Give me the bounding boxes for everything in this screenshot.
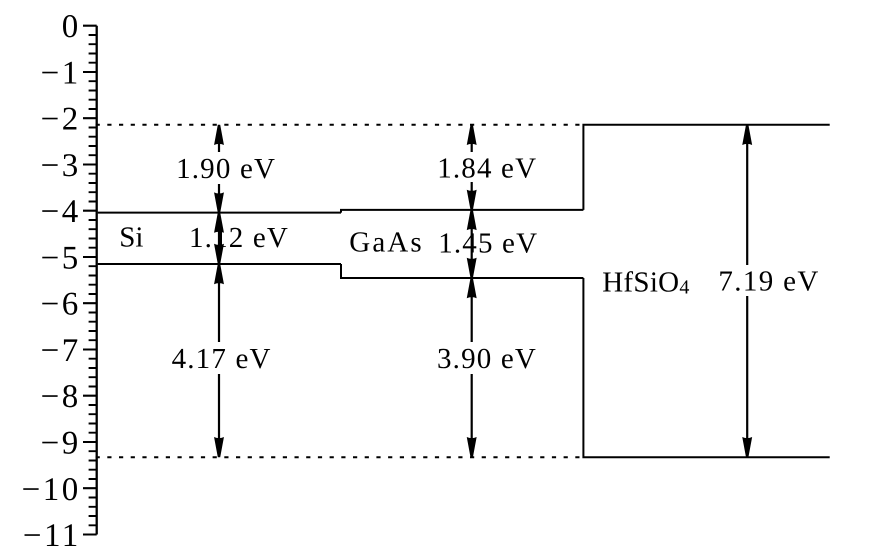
svg-text:−7: −7 — [41, 333, 81, 369]
svg-text:−2: −2 — [41, 102, 81, 138]
HfSiO4 valence band edge — [583, 278, 829, 457]
GaAs valence band edge with step — [341, 264, 583, 278]
arrow 1.45 eV (GaAs bandgap) — [471, 229, 473, 260]
svg-text:3.90 eV: 3.90 eV — [437, 343, 537, 375]
svg-text:−5: −5 — [41, 241, 81, 277]
Si valence band edge — [98, 263, 341, 265]
svg-text:GaAs: GaAs — [349, 226, 423, 258]
HfSiO4 conduction band edge — [583, 125, 829, 210]
svg-text:1.90 eV: 1.90 eV — [176, 153, 276, 185]
bottom dotted line — [96, 456, 584, 458]
svg-text:−1: −1 — [41, 56, 81, 92]
svg-text:HfSiO4: HfSiO4 — [602, 266, 689, 298]
minor ticks — [89, 35, 97, 525]
arrow 1.84 eV (GaAs CB to vacuum line) — [471, 144, 473, 153]
GaAs conduction band edge with step — [341, 210, 583, 213]
major ticks — [83, 26, 97, 535]
arrow 7.19 eV (HfSiO4 gap) — [746, 144, 748, 266]
arrow 4.17 eV (Si VB to bottom line) — [218, 283, 220, 342]
svg-text:−11: −11 — [23, 518, 81, 554]
Si conduction band edge — [98, 212, 341, 214]
svg-text:−6: −6 — [41, 287, 81, 323]
top dotted vacuum-offset line — [96, 124, 584, 126]
svg-text:−9: −9 — [41, 426, 81, 462]
svg-text:4.17 eV: 4.17 eV — [172, 343, 272, 375]
svg-text:−8: −8 — [41, 379, 81, 415]
svg-text:−3: −3 — [41, 148, 81, 184]
svg-text:−10: −10 — [22, 472, 81, 508]
y axis line — [96, 26, 98, 535]
svg-text:Si: Si — [119, 221, 143, 253]
svg-text:1.45 eV: 1.45 eV — [438, 227, 538, 259]
svg-text:−4: −4 — [41, 194, 81, 230]
arrow 1.12 eV (Si bandgap) — [218, 231, 220, 245]
arrow 1.90 eV (Si CB to vacuum line) — [218, 144, 220, 153]
svg-text:1.84 eV: 1.84 eV — [437, 153, 537, 185]
svg-text:0: 0 — [62, 9, 81, 45]
arrow 3.90 eV (GaAs VB to bottom line) — [471, 297, 473, 342]
svg-text:1.12 eV: 1.12 eV — [189, 222, 289, 254]
svg-text:7.19 eV: 7.19 eV — [718, 266, 819, 298]
